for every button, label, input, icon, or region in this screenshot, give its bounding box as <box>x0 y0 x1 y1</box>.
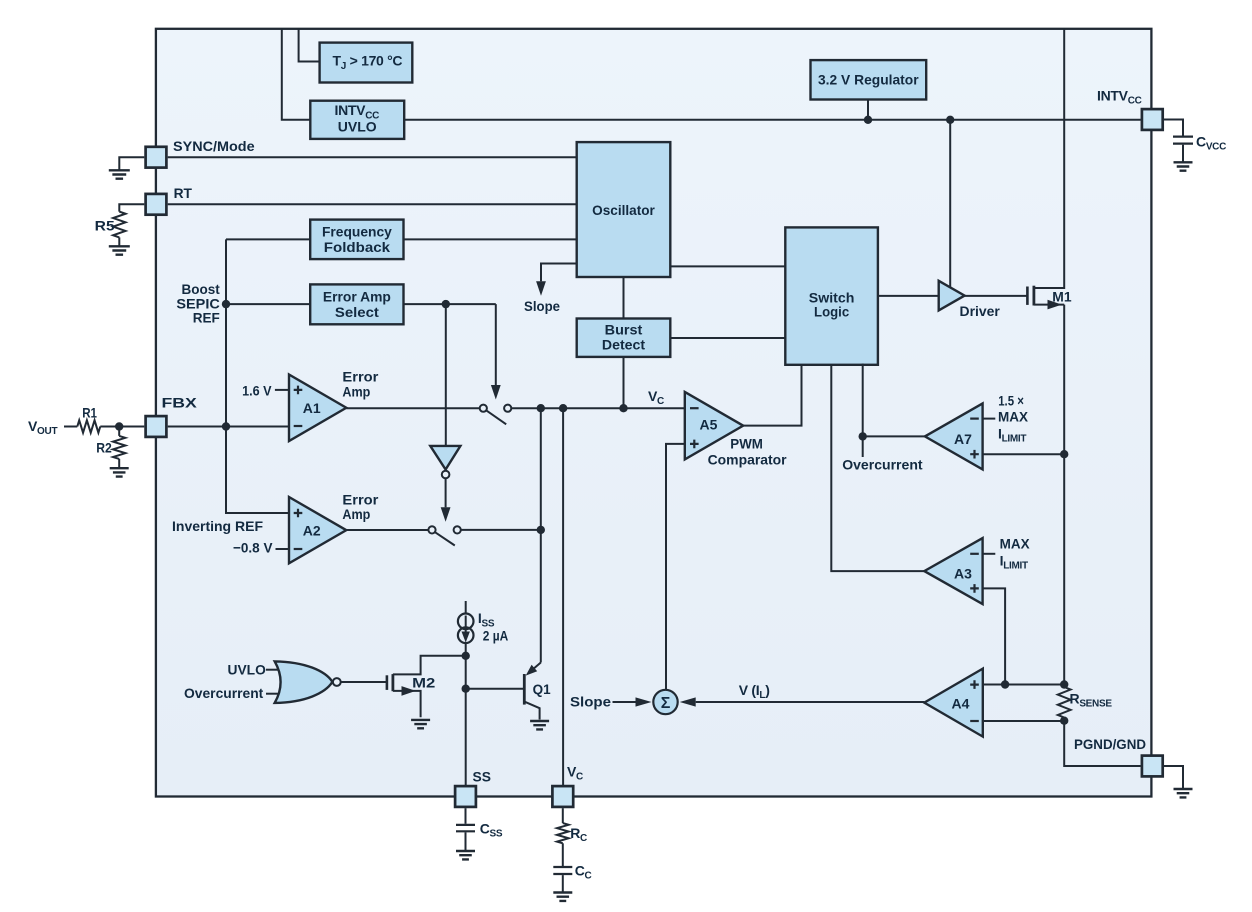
transistor M1 gate bar <box>1026 287 1029 305</box>
capacitor CC <box>553 867 572 874</box>
plus A5 <box>690 440 699 449</box>
arrow select to A1 switch <box>495 304 497 385</box>
plus A4 <box>970 680 979 689</box>
wire Q1 base <box>466 688 525 690</box>
minus A5 <box>690 407 699 409</box>
svg-text:Overcurrent: Overcurrent <box>184 685 264 701</box>
pin INTVCC <box>1142 109 1163 130</box>
switch S1 blade <box>487 411 507 425</box>
svg-text:Detect: Detect <box>602 337 646 353</box>
junction SS-M2 <box>462 652 470 660</box>
wire burst detect to switch logic <box>670 337 785 339</box>
block oscillator <box>577 142 671 277</box>
svg-text:Error: Error <box>342 491 379 507</box>
wire A4 plus to RSENSE top <box>983 684 1064 686</box>
wire RT pin to R5 <box>119 204 144 211</box>
junction regulator-rail <box>864 116 872 124</box>
wire overcurrent input stub <box>266 693 279 695</box>
wire error amp select output <box>226 303 310 305</box>
block 3.2V regulator <box>811 60 927 99</box>
wire A5 plus input from sigma <box>666 444 685 690</box>
wire M2 drain to SS node <box>393 656 466 675</box>
junction A7-sense <box>1060 450 1068 458</box>
wire NOR to M2 gate <box>341 681 387 683</box>
arrow M1 source <box>1048 300 1062 310</box>
wire slope output top <box>541 264 577 282</box>
op-amp A2 error amp <box>289 497 346 563</box>
transistor M2 channel bar <box>391 674 394 691</box>
wire M2 source to ground <box>393 691 421 717</box>
inverter (select logic) <box>430 446 460 470</box>
ground at PGND <box>1174 789 1193 797</box>
wire RSENSE to PGND pin <box>1064 721 1140 766</box>
wire PGND pin to ground <box>1164 766 1183 788</box>
svg-text:REF: REF <box>193 309 221 325</box>
wire R2 to ground <box>118 459 120 468</box>
junction switch outputs <box>537 404 545 412</box>
resistor R1 <box>77 420 100 432</box>
wire Q1 emitter <box>524 702 539 720</box>
pin SYNC/Mode <box>146 147 167 168</box>
svg-text:Comparator: Comparator <box>708 451 788 467</box>
svg-text:M1: M1 <box>1052 289 1072 305</box>
svg-text:A7: A7 <box>954 431 972 447</box>
block TJ thermal shutdown <box>320 43 413 83</box>
capacitor CSS <box>456 825 475 831</box>
current source ISS circles <box>458 614 474 630</box>
summing node sigma <box>653 690 677 714</box>
junction FBX-REF net <box>222 422 230 430</box>
wire select to switches <box>404 303 496 305</box>
comparator A3 max ilimit <box>924 538 982 604</box>
arrow slope to sigma <box>613 701 636 703</box>
comparator A5 PWM <box>685 392 743 460</box>
svg-text:A5: A5 <box>700 417 718 433</box>
transistor Q1 base bar <box>523 674 526 705</box>
wire foldback to REF net <box>226 238 310 240</box>
wire A1 switch to A5 <box>511 407 685 409</box>
svg-text:A3: A3 <box>954 566 972 582</box>
wire A5 output to switch logic <box>743 365 801 426</box>
inverter bubble <box>442 471 450 479</box>
junction burst-VC <box>619 404 627 412</box>
comparator A7 overcurrent <box>925 403 983 469</box>
svg-text:Oscillator: Oscillator <box>592 202 655 218</box>
minus A7 <box>970 418 979 420</box>
transistor M1 channel bar <box>1033 286 1036 306</box>
svg-text:Logic: Logic <box>814 304 849 320</box>
wire oscillator to switch logic <box>670 265 785 267</box>
svg-text:Select: Select <box>335 304 379 320</box>
wire M1 source <box>1034 304 1064 306</box>
arrow M2 source <box>402 686 416 696</box>
svg-text:R5: R5 <box>95 218 115 234</box>
wire VIN stub to INTVCC UVLO <box>282 29 311 120</box>
svg-text:M2: M2 <box>412 674 435 690</box>
svg-text:CVCC: CVCC <box>1196 133 1226 152</box>
svg-text:Inverting REF: Inverting REF <box>172 518 263 534</box>
wire VC pin to RC <box>562 808 564 823</box>
svg-text:Amp: Amp <box>342 383 370 399</box>
arrow slope top <box>540 280 542 282</box>
wire foldback to oscillator <box>404 238 577 240</box>
junction select-inverter branch <box>442 300 450 308</box>
junction VC pin branch <box>559 404 567 412</box>
buffer driver <box>939 281 965 311</box>
wire rail to driver supply <box>949 120 951 287</box>
wire driver to M1 gate <box>965 295 1027 297</box>
resistor RC <box>557 823 569 843</box>
plus A3 <box>970 584 979 593</box>
plus A2 <box>294 509 303 518</box>
wire ISS top stub <box>465 601 467 614</box>
wire A4 minus to RSENSE bottom <box>983 720 1064 722</box>
arrow inverter to A2 switch <box>445 478 447 507</box>
svg-text:VOUT: VOUT <box>28 418 57 437</box>
block switch logic <box>785 227 878 364</box>
svg-text:1.5 ×: 1.5 × <box>998 393 1024 409</box>
minus A2 <box>294 548 303 550</box>
wire VIN stub to TJ block <box>299 29 320 62</box>
switch S1 right contact <box>504 405 511 412</box>
wire A2 switch to node <box>461 529 541 531</box>
svg-text:R1: R1 <box>82 405 97 421</box>
svg-text:MAX: MAX <box>1000 535 1031 551</box>
svg-text:Error: Error <box>342 369 379 385</box>
junction rail-driver <box>946 116 954 124</box>
ground at SYNC <box>109 170 130 178</box>
svg-text:A4: A4 <box>952 696 970 712</box>
switch S2 right contact <box>454 526 461 533</box>
resistor R2 <box>113 436 125 459</box>
svg-text:A1: A1 <box>303 400 321 416</box>
svg-text:1.6 V: 1.6 V <box>242 382 272 398</box>
wire A3 plus to sense line <box>983 588 1006 684</box>
wire SS pin to CSS <box>465 808 467 824</box>
junction RSENSE top <box>1060 680 1068 688</box>
arrow Q1 emitter-top <box>526 665 538 676</box>
svg-text:−0.8 V: −0.8 V <box>233 540 273 556</box>
capacitor CVCC <box>1173 137 1193 144</box>
pin SS <box>455 786 476 807</box>
wire A7 plus to sense <box>983 453 1065 455</box>
node Boost/SEPIC/REF <box>222 300 230 308</box>
wire M1 drain <box>1034 29 1064 288</box>
NOR gate U1 <box>275 661 333 703</box>
pin FBX <box>146 416 167 437</box>
wire A3 output to switch logic <box>831 365 924 572</box>
plus A7 <box>970 450 979 459</box>
wire A7 output and overcurrent <box>863 364 925 458</box>
node feedback divider <box>115 422 123 430</box>
svg-text:A2: A2 <box>303 523 321 539</box>
ground at R2 <box>110 468 129 476</box>
wire INTVCC rail <box>404 119 1140 121</box>
svg-text:Driver: Driver <box>960 303 1001 319</box>
switch S2 blade <box>435 532 455 545</box>
resistor R5 <box>113 212 125 238</box>
minus A3 <box>970 553 979 555</box>
svg-text:RC: RC <box>570 825 587 844</box>
svg-text:SS: SS <box>473 768 492 784</box>
amplifier A4 current sense <box>924 669 983 737</box>
wire A1 output <box>346 407 479 409</box>
wire M1 source to RSENSE <box>1063 305 1065 687</box>
pin VC <box>552 786 573 807</box>
wire FBX to A1 inverting input <box>168 426 289 428</box>
wire R1 to FBX pin <box>100 426 144 428</box>
svg-text:Slope: Slope <box>524 298 560 314</box>
wire CVCC to ground <box>1182 145 1184 162</box>
svg-text:Error Amp: Error Amp <box>323 288 391 304</box>
svg-text:Slope: Slope <box>570 693 611 709</box>
ground at Q1 <box>530 721 549 729</box>
ground at R5 <box>109 246 130 254</box>
wire inverter input <box>445 304 447 446</box>
wire UVLO input stub <box>266 669 279 671</box>
svg-text:Σ: Σ <box>661 695 671 712</box>
transistor M2 gate bar <box>386 675 389 690</box>
wire burst detect to VC line <box>623 357 625 408</box>
wire 1.6V ref to A1 <box>275 389 289 391</box>
minus A4 <box>970 720 979 722</box>
svg-text:Overcurrent: Overcurrent <box>842 457 923 473</box>
svg-text:R2: R2 <box>96 440 112 456</box>
wire CSS to ground <box>465 832 467 850</box>
svg-text:CC: CC <box>575 862 592 881</box>
node overcurrent <box>859 432 867 440</box>
wire Q1 collector diag <box>534 663 541 669</box>
wire CC to ground <box>562 875 564 892</box>
resistor RSENSE <box>1058 687 1071 717</box>
ground at CC <box>553 893 572 901</box>
svg-text:PWM: PWM <box>730 436 763 452</box>
wire SS net vertical <box>465 643 467 785</box>
pin RT <box>146 194 167 215</box>
wire divider to R2 <box>118 427 120 436</box>
svg-text:RT: RT <box>174 185 193 201</box>
wire -0.8V ref to A2 <box>276 548 290 550</box>
wire switch logic to driver <box>878 295 939 297</box>
ground at CSS <box>456 851 475 859</box>
junction A3-A4 sense <box>1001 680 1009 688</box>
wire VC to pin <box>562 408 564 785</box>
svg-text:UVLO: UVLO <box>338 118 377 134</box>
svg-text:Frequency: Frequency <box>322 223 392 239</box>
wire regulator to rail <box>867 100 869 120</box>
wire SYNC to oscillator <box>168 156 577 158</box>
wire RT to oscillator <box>168 203 577 205</box>
wire A3 minus ref <box>983 553 996 555</box>
arrow inside ISS <box>465 616 467 632</box>
svg-text:Burst: Burst <box>605 321 643 337</box>
wire oscillator to burst detect <box>623 277 625 319</box>
wire REF vertical net <box>226 239 289 513</box>
svg-text:CSS: CSS <box>480 820 503 839</box>
wire switch node vertical <box>540 408 542 662</box>
wire R5 to ground <box>118 237 120 246</box>
wire SYNC pin to ground <box>119 157 144 170</box>
svg-text:Amp: Amp <box>342 506 370 522</box>
svg-text:MAX: MAX <box>998 409 1029 425</box>
svg-text:UVLO: UVLO <box>228 661 266 677</box>
svg-text:PGND/GND: PGND/GND <box>1074 736 1146 752</box>
pin PGND/GND <box>1142 756 1163 777</box>
block INTVCC UVLO <box>310 101 404 139</box>
NOR output bubble <box>333 678 341 686</box>
arrow A4 output V(IL) to sigma <box>696 701 925 703</box>
junction RSENSE bottom <box>1060 717 1068 725</box>
svg-text:SYNC/Mode: SYNC/Mode <box>173 138 255 154</box>
op-amp A1 error amp <box>289 375 346 442</box>
svg-text:3.2 V Regulator: 3.2 V Regulator <box>818 72 919 88</box>
block burst detect <box>577 319 671 357</box>
wire RC to CC <box>562 843 564 866</box>
junction A2 switch node <box>537 526 545 534</box>
svg-text:Foldback: Foldback <box>324 239 390 255</box>
block frequency foldback <box>310 220 403 260</box>
junction SS-Q1 base <box>462 685 470 693</box>
plus A1 <box>294 386 303 395</box>
switch S1 left contact <box>480 405 487 412</box>
svg-text:FBX: FBX <box>162 394 198 410</box>
svg-text:Q1: Q1 <box>533 681 551 697</box>
wire INTVCC pin to CVCC <box>1164 120 1183 136</box>
ground at M2 <box>411 720 430 728</box>
block error amp select <box>310 284 403 324</box>
ground at CVCC <box>1174 162 1193 170</box>
svg-text:2 µA: 2 µA <box>483 627 509 643</box>
wire A7 minus ref <box>983 418 996 420</box>
wire A2 output <box>346 529 428 531</box>
switch S2 left contact <box>428 526 435 533</box>
minus A1 <box>294 425 303 427</box>
wire VOUT to R1 <box>64 426 77 428</box>
